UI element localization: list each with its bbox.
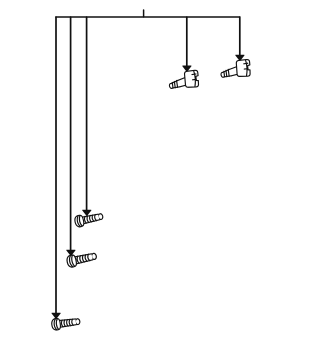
arrowhead to screw 3 <box>83 210 91 215</box>
arrowhead to screw 2 <box>236 55 244 60</box>
screw 2 (slotted machine screw, head right, shaft to lower-left) <box>218 57 254 84</box>
screw 1 (slotted machine screw, head right, shaft to lower-left) <box>167 67 203 95</box>
arrowhead to screw 1 <box>183 66 191 71</box>
leader wire to screw 4 <box>70 17 72 250</box>
bracket horizontal line <box>56 16 240 18</box>
leader wire to screw 5 <box>55 17 57 313</box>
leader wire to screw 2 <box>239 17 241 55</box>
arrowhead to screw 4 <box>67 250 75 255</box>
screw 3 (tapping screw, head left, threaded shaft to upper-right) <box>74 211 104 228</box>
screw 4 (tapping screw, head left, threaded shaft to upper-right) <box>66 250 97 268</box>
leader wire to screw 3 <box>86 17 88 210</box>
leader wire to screw 1 <box>186 17 188 66</box>
callout label 1 tick <box>143 10 145 17</box>
screw 5 (tapping screw, head left, threaded shaft to upper-right) <box>51 316 80 331</box>
arrowhead to screw 5 <box>52 313 60 318</box>
